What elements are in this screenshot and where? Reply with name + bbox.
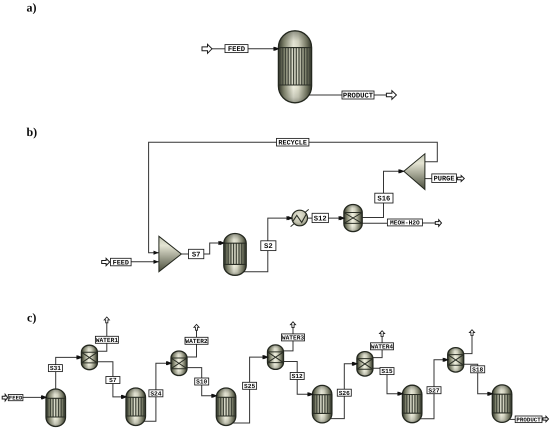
- flash drum V1 (panel c): [81, 345, 97, 370]
- stream FEED into mixer (panel b): [131, 260, 159, 264]
- feed source arrow (panel a): [202, 44, 212, 53]
- arrowhead at reactor R4 inlet (panel c): [308, 392, 313, 396]
- arrowhead at cooler inlet (panel b): [288, 216, 293, 220]
- wire PRODUCT label to product sink (panel a): [374, 94, 386, 96]
- stream label FEED (panel c): [8, 395, 23, 402]
- svg-text:b): b): [27, 125, 38, 139]
- vent arrow above flash V2 (panel c): [194, 324, 199, 330]
- stream label S27 (panel c): [427, 387, 441, 395]
- stream label WATER3 (panel c): [282, 334, 305, 342]
- svg-text:S12: S12: [292, 373, 303, 380]
- svg-text:PURGE: PURGE: [434, 176, 455, 184]
- feed source arrow (panel b): [102, 258, 110, 265]
- stream label PURGE (panel b): [432, 174, 457, 184]
- MEOH-H2O sink arrow (panel b): [435, 220, 441, 227]
- flash drum V3 (panel c): [268, 345, 284, 370]
- stream label S12 (panel b): [312, 213, 328, 223]
- svg-text:S31: S31: [50, 365, 61, 372]
- stream label S15 (panel c): [380, 368, 394, 376]
- stream label S25 (panel c): [243, 382, 257, 390]
- reactor B2 (panel b): [224, 234, 246, 276]
- stream label PRODUCT (panel c): [515, 416, 542, 423]
- reactor R5 (panel c): [402, 385, 422, 423]
- svg-text:S27: S27: [428, 387, 439, 394]
- reactor R1 (panel c): [46, 389, 66, 427]
- mixer M1 triangle (panel b): [159, 236, 182, 271]
- stream FEED into reactor R1 (panel c): [23, 395, 47, 399]
- wire feed source to FEED label (panel b): [109, 261, 112, 263]
- stream S2: reactor to cooler (panel b): [238, 216, 292, 272]
- svg-text:S7: S7: [109, 377, 117, 384]
- arrowhead at splitter inlet (panel b): [399, 169, 404, 173]
- stream S24: reactor R2 to flash V2 (panel c): [138, 361, 172, 421]
- wire PRODUCT label to sink (panel c): [541, 418, 544, 420]
- flash drum B4 (panel b): [344, 205, 362, 232]
- vent wire from flash V5 (panel c): [462, 336, 472, 354]
- vent wire WATER4 from flash V4 (panel c): [371, 337, 382, 358]
- cooler / heat exchanger B3 (panel b): [291, 209, 309, 226]
- vent arrow above flash V1 (panel c): [104, 317, 109, 323]
- svg-text:WATER3: WATER3: [282, 335, 305, 342]
- svg-text:S26: S26: [339, 390, 350, 397]
- stream label S7 (panel c): [106, 377, 120, 385]
- stream label S26 (panel c): [337, 389, 351, 397]
- stream S7: flash V1 to reactor R2 (panel c): [95, 362, 126, 399]
- svg-text:S15: S15: [381, 368, 392, 375]
- svg-text:FEED: FEED: [113, 259, 129, 267]
- stream S25: reactor R3 to flash V3 (panel c): [228, 355, 268, 423]
- splitter B5 triangle (panel b): [404, 154, 425, 190]
- svg-text:PRODUCT: PRODUCT: [343, 92, 374, 100]
- arrowhead at reactor B1 inlet (panel a): [274, 47, 279, 51]
- wire reactor B1 outlet to PRODUCT (panel a): [300, 94, 342, 96]
- arrowhead at flash V3 inlet (panel c): [264, 355, 269, 359]
- stream S18: flash V5 to reactor R6 (panel c): [462, 364, 493, 396]
- stream label S24 (panel c): [149, 390, 163, 398]
- stream label S12 (panel c): [290, 373, 304, 381]
- plug-flow reactor B1 (panel a): [278, 31, 311, 103]
- reactor R4 (panel c): [312, 385, 332, 423]
- arrowhead at flash V1 inlet (panel c): [77, 355, 82, 359]
- stream S15: flash V4 to reactor R5 (panel c): [371, 368, 403, 396]
- svg-text:S24: S24: [150, 390, 161, 397]
- arrowhead at flash V4 inlet (panel c): [353, 362, 358, 366]
- stream PURGE: splitter to label (panel b): [425, 178, 432, 180]
- stream S7: mixer to reactor (panel b): [181, 241, 223, 254]
- svg-text:FEED: FEED: [9, 395, 23, 402]
- stream label S10 (panel c): [195, 378, 209, 386]
- feed source arrow (panel c): [2, 394, 7, 401]
- arrowhead at flash V2 inlet (panel c): [167, 361, 172, 365]
- svg-text:S10: S10: [196, 379, 207, 386]
- vent arrow above flash V3 (panel c): [290, 322, 295, 328]
- arrowhead at reactor R2 inlet (panel c): [122, 395, 127, 399]
- stream PRODUCT: reactor R6 to sink (panel c): [503, 418, 515, 420]
- stream MEOH-H2O: flash liquid outlet (panel b): [361, 222, 387, 224]
- svg-text:c): c): [27, 311, 36, 325]
- stream label FEED (panel a): [225, 45, 248, 54]
- product sink arrow (panel a): [386, 91, 396, 100]
- svg-text:WATER4: WATER4: [371, 343, 394, 350]
- wire feed source to FEED label (panel c): [7, 397, 10, 399]
- stream label RECYCLE (panel b): [277, 138, 309, 147]
- svg-text:WATER2: WATER2: [185, 338, 208, 345]
- stream label PRODUCT (panel a): [342, 91, 374, 100]
- stream S16: flash vapor to splitter (panel b): [361, 169, 404, 217]
- reactor R6 (panel c): [492, 385, 512, 423]
- svg-text:PRODUCT: PRODUCT: [516, 416, 541, 423]
- stream label S2 (panel b): [261, 241, 276, 251]
- svg-text:S7: S7: [192, 251, 201, 259]
- stream label S18 (panel c): [471, 366, 485, 374]
- svg-text:S12: S12: [314, 215, 327, 223]
- stream label S7 (panel b): [189, 249, 204, 259]
- stream S10: flash V2 to reactor R3 (panel c): [185, 368, 217, 398]
- product sink arrow (panel c): [543, 416, 549, 421]
- vent wire WATER2 from flash V2 (panel c): [185, 330, 197, 357]
- arrowhead at flash V5 inlet (panel c): [444, 358, 449, 362]
- svg-text:MEOH-H2O: MEOH-H2O: [390, 220, 420, 227]
- stream label MEOH-H2O (panel b): [387, 219, 422, 227]
- stream RECYCLE: splitter to mixer (panel b): [149, 142, 438, 255]
- flash drum V2 (panel c): [171, 351, 187, 376]
- svg-text:S18: S18: [472, 366, 483, 373]
- svg-text:S16: S16: [377, 196, 390, 204]
- wire feed source to FEED label (panel a): [212, 48, 225, 50]
- svg-text:S25: S25: [244, 383, 255, 390]
- vent wire WATER1 from flash V1 (panel c): [95, 323, 106, 351]
- arrowhead at reactor R6 inlet (panel c): [488, 392, 493, 396]
- reactor R3 (panel c): [216, 388, 236, 426]
- arrowhead at reactor R1 inlet (panel c): [42, 395, 47, 399]
- stream S12: cooler to flash (panel b): [308, 216, 345, 220]
- svg-text:a): a): [27, 1, 37, 15]
- stream label WATER1 (panel c): [95, 336, 118, 344]
- stream S26: reactor R4 to flash V4 (panel c): [324, 362, 357, 419]
- wire FEED to reactor B1 inlet (panel a): [248, 47, 279, 51]
- arrowhead at reactor R5 inlet (panel c): [398, 392, 403, 396]
- svg-text:WATER1: WATER1: [96, 337, 119, 344]
- stream label WATER4 (panel c): [371, 343, 394, 351]
- reactor R2 (panel c): [126, 388, 146, 426]
- arrowhead at reactor B2 inlet (panel b): [220, 241, 225, 245]
- PURGE sink arrow (panel b): [457, 176, 464, 182]
- svg-text:RECYCLE: RECYCLE: [278, 140, 307, 148]
- vent wire WATER3 from flash V3 (panel c): [282, 328, 294, 351]
- wire PURGE label to sink (panel b): [455, 178, 458, 180]
- flash drum V5 (panel c): [448, 348, 464, 373]
- vent arrow above flash V5 (panel c): [469, 330, 474, 336]
- stream S31: reactor R1 to flash V1 (panel c): [56, 355, 82, 389]
- stream label S31 (panel c): [48, 365, 62, 373]
- stream S12: flash V3 to reactor R4 (panel c): [282, 362, 313, 397]
- stream S27: reactor R5 to flash V5 (panel c): [414, 358, 448, 419]
- stream label WATER2 (panel c): [185, 337, 208, 345]
- arrowhead at flash drum B4 inlet (panel b): [340, 216, 345, 220]
- stream label FEED (panel b): [111, 258, 132, 267]
- arrowhead at reactor R3 inlet (panel c): [212, 394, 217, 398]
- stream label S16 (panel b): [375, 193, 393, 203]
- svg-text:S2: S2: [264, 243, 273, 251]
- wire MEOH-H2O label to sink (panel b): [422, 222, 435, 224]
- vent arrow above flash V4 (panel c): [380, 331, 385, 337]
- svg-text:FEED: FEED: [228, 46, 246, 54]
- flash drum V4 (panel c): [357, 352, 373, 377]
